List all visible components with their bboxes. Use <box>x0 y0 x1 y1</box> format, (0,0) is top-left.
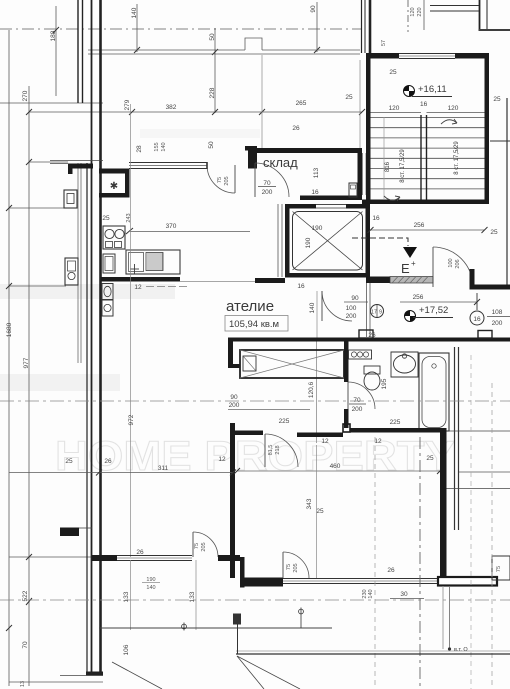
bath left wall lower stub <box>344 409 349 428</box>
svg-text:972: 972 <box>128 414 135 425</box>
svg-text:8 ст. 17,5/29: 8 ст. 17,5/29 <box>454 141 460 175</box>
axis bubble 75 right edge <box>492 556 510 580</box>
bath bottom wall right part <box>350 428 440 433</box>
bottom wall mid seg <box>218 555 240 561</box>
sink unit 1 <box>102 284 113 300</box>
dim line x215 <box>214 28 216 113</box>
svg-text:26: 26 <box>104 458 112 465</box>
neighbour line y472 <box>459 471 510 473</box>
svg-text:200: 200 <box>229 402 240 409</box>
sklad bottom wall <box>300 196 362 201</box>
bath bottom wall left part <box>297 433 343 438</box>
svg-text:75: 75 <box>286 564 292 570</box>
bath door leaf <box>347 382 349 409</box>
svg-text:HOME PROPERTY: HOME PROPERTY <box>55 432 455 479</box>
svg-text:25: 25 <box>426 455 434 462</box>
wall thin pair x78 x81 mid <box>77 163 79 363</box>
svg-text:75: 75 <box>194 543 200 549</box>
jamb box on wall <box>359 330 373 338</box>
dim verticals x130 x196 bottom <box>130 560 132 630</box>
svg-text:25: 25 <box>389 69 397 76</box>
lift door gap <box>316 205 346 209</box>
corner block NE <box>245 146 257 169</box>
svg-text:200: 200 <box>346 313 357 320</box>
svg-text:133: 133 <box>189 591 196 602</box>
thin wall edge y161 <box>50 160 103 162</box>
hall bottom wall solid part <box>366 277 390 284</box>
post line <box>237 621 239 654</box>
dim line x137 <box>136 4 138 52</box>
kitchen partition wall <box>101 277 180 282</box>
svg-text:200: 200 <box>352 406 363 413</box>
vent box OOO <box>349 350 372 359</box>
bathtub <box>419 353 449 431</box>
svg-text:26: 26 <box>368 332 376 339</box>
sklad top wall <box>255 148 362 153</box>
neighbour wall thin x453 <box>454 347 456 530</box>
svg-text:133: 133 <box>123 591 130 602</box>
washbasin <box>391 352 418 377</box>
neighbour line y431 <box>447 430 510 432</box>
svg-text:16: 16 <box>311 189 319 196</box>
cabinet <box>103 254 115 273</box>
svg-text:25: 25 <box>316 508 324 515</box>
entrance arrow <box>403 247 417 258</box>
dim connector y162 <box>29 161 68 163</box>
dim 256 upper <box>371 229 485 231</box>
dim line left inner <box>28 86 30 686</box>
dim 120 left <box>371 112 422 114</box>
sklad right wall <box>358 148 363 200</box>
axis bubble 17-9 <box>371 305 384 318</box>
svg-text:12: 12 <box>321 438 329 445</box>
svg-text:140: 140 <box>368 589 374 598</box>
stair top wall left part <box>366 53 399 59</box>
bottom right wall block <box>438 577 497 586</box>
axis tick x477 <box>476 293 478 310</box>
bath bottom jamb notch <box>343 424 350 432</box>
wall line x78 top <box>77 0 79 103</box>
dim 311 <box>9 472 233 474</box>
svg-text:26: 26 <box>136 549 144 556</box>
dim connector y103 <box>0 102 103 104</box>
svg-text:75: 75 <box>496 566 502 572</box>
dim line left outer <box>8 30 10 686</box>
right edge line y141 <box>490 140 510 142</box>
dim x360 vertical <box>359 60 361 148</box>
dashed x375 <box>374 437 376 689</box>
entry door leaf <box>432 247 434 287</box>
svg-text:25: 25 <box>490 229 498 236</box>
svg-text:382: 382 <box>166 104 177 111</box>
svg-text:в.т. О: в.т. О <box>454 647 468 653</box>
svg-text:106: 106 <box>123 644 130 655</box>
notch at x245 <box>245 38 262 50</box>
svg-text:70: 70 <box>263 180 271 187</box>
wall line x91.5 full <box>91 0 93 675</box>
flue box 1 <box>64 190 77 208</box>
dashed x490 <box>491 383 493 689</box>
wall line x100.5 full <box>99 0 102 675</box>
terrace line y628 <box>99 627 332 629</box>
dashed x455 <box>470 355 472 689</box>
svg-text:205: 205 <box>201 542 207 551</box>
svg-text:70: 70 <box>22 641 29 649</box>
step leg wall <box>240 557 245 588</box>
area box <box>225 316 288 332</box>
svg-text:50: 50 <box>208 141 215 149</box>
svg-text:243: 243 <box>126 213 132 222</box>
svg-text:90: 90 <box>351 295 359 302</box>
dash-dot axis y29 <box>0 28 362 30</box>
entry door arc <box>433 247 473 287</box>
svg-text:228: 228 <box>209 87 216 98</box>
dim line continuation y282 <box>180 281 255 283</box>
svg-text:Е: Е <box>401 261 410 276</box>
tick marks <box>6 27 133 631</box>
chain ticks <box>26 47 365 115</box>
curve arrow upper <box>441 119 457 124</box>
svg-text:105,94 кв.м: 105,94 кв.м <box>229 319 279 330</box>
svg-text:190: 190 <box>312 225 323 232</box>
svg-text:✱: ✱ <box>110 181 118 192</box>
lift cross diagonal 1 <box>293 212 363 271</box>
radiator box <box>349 183 357 197</box>
shaft gap lines <box>362 153 364 195</box>
svg-text:220: 220 <box>417 7 423 16</box>
svg-text:460: 460 <box>330 463 341 470</box>
svg-text:26: 26 <box>387 567 395 574</box>
dim chain y112 <box>29 111 362 113</box>
wardrobe diagonal 1 <box>240 350 344 378</box>
survey rod <box>442 586 444 649</box>
lift cross diagonal 2 <box>293 212 363 271</box>
survey point +16,11 <box>404 86 415 97</box>
svg-text:190: 190 <box>305 237 312 248</box>
svg-text:26: 26 <box>292 125 300 132</box>
sklad door leaf <box>254 163 256 197</box>
scan smudge bands <box>0 284 175 299</box>
jamb box right <box>478 331 492 339</box>
svg-text:977: 977 <box>23 357 30 368</box>
svg-text:265: 265 <box>296 100 307 107</box>
svg-text:370: 370 <box>166 223 177 230</box>
dim line x424 top <box>423 0 425 30</box>
svg-text:16: 16 <box>473 316 481 323</box>
svg-text:200: 200 <box>492 320 503 327</box>
wardrobe inner box <box>243 356 256 371</box>
svg-text:90: 90 <box>230 394 238 401</box>
svg-text:120: 120 <box>389 105 400 112</box>
svg-text:195: 195 <box>381 378 388 389</box>
dim vertical x316 <box>316 445 318 578</box>
wardrobe left step wall <box>228 342 240 369</box>
svg-text:25: 25 <box>102 215 110 222</box>
axis dash-dot y600 <box>0 599 510 601</box>
left step-out block <box>60 528 79 537</box>
svg-text:206: 206 <box>455 259 461 268</box>
window bottom left <box>117 555 192 557</box>
wall line x87 <box>86 163 88 675</box>
upper floor edge y50-54 <box>88 49 245 51</box>
stair left wall <box>366 55 371 204</box>
svg-text:188: 188 <box>50 30 57 41</box>
hall bottom wall hatched part <box>390 277 433 284</box>
svg-text:311: 311 <box>158 465 169 472</box>
door bottom-left leaf <box>192 532 194 557</box>
window bottom right <box>283 578 437 580</box>
dim 460 <box>237 470 440 472</box>
diagonal 2 <box>237 656 264 689</box>
stair treads <box>371 118 485 189</box>
curve arrow lower <box>384 196 400 201</box>
counter <box>126 250 180 274</box>
svg-text:16: 16 <box>420 101 428 108</box>
wardrobe diagonal 2 <box>240 350 344 378</box>
right edge wall x507 <box>506 98 508 287</box>
lower wall horizontal <box>240 578 283 587</box>
svg-text:16: 16 <box>297 283 305 290</box>
svg-text:12: 12 <box>134 284 142 291</box>
svg-text:+: + <box>411 259 416 268</box>
bath left wall upper <box>344 342 349 383</box>
bedroom left wall <box>230 423 235 578</box>
bedroom top wall left seg <box>233 431 263 436</box>
terrace line y654 <box>236 650 510 652</box>
svg-text:279: 279 <box>124 99 131 110</box>
bottom wall cap <box>86 672 103 676</box>
dim connector y208 <box>9 207 77 209</box>
svg-text:155: 155 <box>154 142 160 151</box>
svg-text:16: 16 <box>372 215 380 222</box>
diagonal 1 <box>237 656 300 689</box>
svg-text:30: 30 <box>400 591 408 598</box>
stair right wall <box>485 53 490 204</box>
flue box 2 <box>65 258 78 285</box>
survey point +17,52 <box>405 311 416 322</box>
svg-text:12: 12 <box>374 438 382 445</box>
axis dash-dot x420 <box>419 437 421 689</box>
dim connector y286 <box>9 285 66 287</box>
stair top window <box>399 53 455 55</box>
dim 120 right <box>427 112 485 114</box>
neighbour line y488 <box>447 488 510 490</box>
svg-text:140: 140 <box>146 585 155 591</box>
shaft room right wall <box>125 169 130 198</box>
svg-text:200: 200 <box>262 189 273 196</box>
atelier top wall stub <box>255 278 285 283</box>
sklad door arc <box>255 163 289 197</box>
svg-text:113: 113 <box>313 167 320 178</box>
window W1 lines <box>129 162 207 164</box>
diagonal bottom-left <box>112 662 162 689</box>
shaft room top wall <box>99 169 129 174</box>
svg-text:205: 205 <box>293 563 299 572</box>
svg-text:225: 225 <box>390 419 401 426</box>
svg-text:13: 13 <box>20 681 26 687</box>
corridor bottom wall <box>228 338 510 342</box>
corridor right edge lines <box>366 283 368 337</box>
dim ticks 256 <box>368 227 374 233</box>
svg-text:75: 75 <box>217 177 223 183</box>
stove <box>103 226 125 249</box>
svg-text:140: 140 <box>161 142 167 151</box>
svg-text:28: 28 <box>136 145 143 153</box>
dim x262 vertical <box>261 55 263 148</box>
small post box <box>233 614 241 625</box>
svg-text:9: 9 <box>379 310 382 316</box>
drawer hatch <box>146 253 163 271</box>
svg-text:57: 57 <box>381 40 387 46</box>
corner wall right <box>470 269 510 290</box>
wall stub top-left <box>68 164 93 175</box>
svg-text:100: 100 <box>346 305 357 312</box>
svg-text:25: 25 <box>65 458 73 465</box>
corridor thin wall left of lift <box>277 204 279 277</box>
door bottom-left arc <box>193 532 218 557</box>
svg-text:100: 100 <box>448 258 454 267</box>
svg-text:70: 70 <box>353 397 361 404</box>
dim vertical x130 <box>130 104 132 557</box>
axis dash-dot y401 <box>0 400 510 402</box>
dim line top-left short <box>55 6 57 96</box>
door D1 arc <box>207 165 235 193</box>
svg-text:90: 90 <box>310 5 317 13</box>
svg-text:108: 108 <box>492 309 503 316</box>
svg-text:225: 225 <box>279 418 290 425</box>
door D1 jamb <box>206 162 208 169</box>
phi mark 1 <box>182 624 187 629</box>
svg-text:816: 816 <box>385 161 391 172</box>
svg-text:25: 25 <box>345 94 353 101</box>
svg-text:25: 25 <box>493 96 501 103</box>
bath door arc <box>348 382 375 409</box>
stair top wall right part <box>455 53 489 59</box>
room2 right wall <box>440 428 447 578</box>
bottom left line y675 <box>60 675 103 677</box>
top right corner walls <box>479 0 481 29</box>
bottom wall left room <box>92 555 117 561</box>
dim 256 lower <box>400 301 477 303</box>
svg-text:205: 205 <box>224 176 230 185</box>
door french leaf <box>282 552 284 578</box>
sink unit 2 <box>102 300 113 316</box>
svg-text:120: 120 <box>448 105 459 112</box>
svg-text:17: 17 <box>371 310 377 316</box>
bedroom door arc <box>265 434 298 467</box>
dim line x317 top <box>316 2 318 52</box>
svg-text:ателие: ателие <box>226 298 274 315</box>
corridor door arc <box>322 291 352 321</box>
svg-text:140: 140 <box>309 302 316 313</box>
door D1 leaf <box>234 165 236 193</box>
toilet <box>364 366 380 374</box>
lift shaft walls <box>285 204 370 278</box>
dim connector y682 <box>9 681 103 683</box>
stair stringer <box>420 115 422 200</box>
tap cross <box>130 268 139 270</box>
dim connector y557 <box>9 556 92 558</box>
svg-text:склад: склад <box>263 155 298 170</box>
bedroom door leaf <box>264 434 266 467</box>
svg-text:343: 343 <box>306 498 313 509</box>
lift cab <box>293 212 363 271</box>
svg-text:50: 50 <box>209 33 216 41</box>
svg-text:190: 190 <box>146 577 155 583</box>
svg-text:81,5: 81,5 <box>268 445 274 456</box>
axis bubble 16 <box>470 311 484 325</box>
svg-text:270: 270 <box>22 90 29 101</box>
svg-text:12: 12 <box>218 456 226 463</box>
shaft room bottom wall <box>99 193 129 198</box>
door french arc <box>283 552 309 578</box>
svg-text:140: 140 <box>131 7 138 18</box>
svg-text:120,6: 120,6 <box>308 381 315 398</box>
phi mark 2 <box>299 609 304 614</box>
svg-text:218: 218 <box>275 445 281 454</box>
svg-text:+16,11: +16,11 <box>418 84 447 95</box>
entrance route dashed <box>352 238 408 246</box>
svg-text:120: 120 <box>410 7 416 16</box>
stair bottom wall <box>362 200 489 205</box>
svg-text:256: 256 <box>414 222 425 229</box>
corridor door leaf <box>321 291 323 321</box>
svg-text:8 ст. 17,5/29: 8 ст. 17,5/29 <box>400 149 406 183</box>
wardrobe box <box>240 350 344 378</box>
wall line x82.5 top <box>82 0 84 103</box>
svg-text:1680: 1680 <box>6 322 13 337</box>
walls above stairs top <box>361 0 363 53</box>
svg-text:+17,52: +17,52 <box>419 305 448 316</box>
dashed axis x408 top <box>407 0 409 32</box>
svg-text:256: 256 <box>413 294 424 301</box>
